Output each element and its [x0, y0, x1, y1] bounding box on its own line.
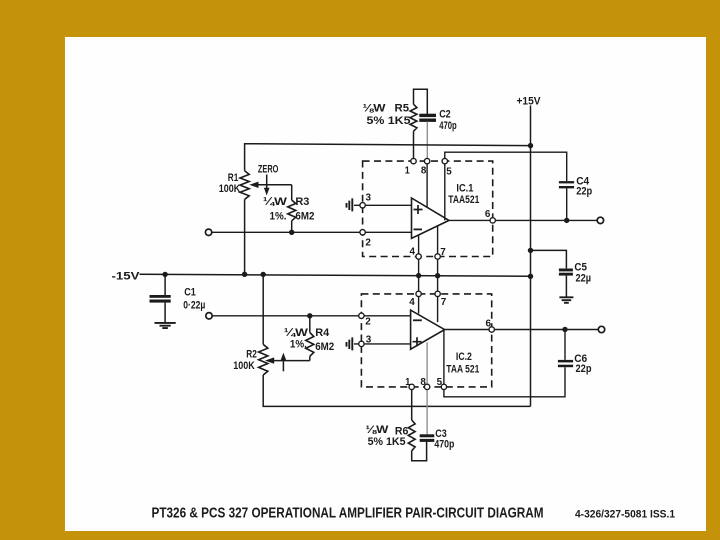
svg-text:⅛W: ⅛W [365, 424, 389, 436]
capacitor C4 22p [559, 181, 574, 183]
junction C5 branch / +15V rail [528, 248, 533, 253]
svg-text:¼W: ¼W [284, 327, 309, 339]
potentiometer R1 100K [240, 171, 249, 200]
svg-text:3: 3 [366, 335, 372, 346]
wire U2 pin 1 lead to R6 [411, 387, 413, 420]
R2 adjust up-arrow [282, 358, 284, 371]
input terminal 1 [205, 229, 211, 235]
svg-text:IC.1: IC.1 [456, 182, 473, 194]
svg-text:470p: 470p [434, 439, 454, 451]
svg-text:TAA521: TAA521 [448, 194, 479, 206]
U2 minus input symbol [413, 319, 422, 321]
wire C5 branch from +15V rail [531, 250, 567, 268]
svg-text:TAA 521: TAA 521 [446, 363, 479, 375]
wire -15V bus [140, 274, 531, 276]
svg-text:6: 6 [485, 209, 491, 220]
svg-text:100K: 100K [219, 183, 241, 195]
svg-text:1%.: 1%. [270, 210, 287, 222]
svg-text:C1: C1 [184, 287, 196, 299]
svg-text:5% 1K5: 5% 1K5 [368, 436, 406, 448]
junction pin7 column / bus [435, 273, 440, 278]
resistor R3 6M2 [291, 185, 293, 200]
svg-text:7: 7 [441, 297, 447, 308]
wire C2 bottom lead to pin 8 (faint) [426, 122, 428, 162]
svg-text:6M2: 6M2 [295, 210, 314, 222]
wire top bus from R1 top to +15V rail [245, 144, 531, 171]
wire U1 pin5 / C4 compensation loop [445, 152, 567, 220]
svg-text:22p: 22p [576, 363, 592, 375]
wire U1 output line to terminal [449, 219, 597, 221]
svg-text:0·22µ: 0·22µ [183, 299, 205, 311]
svg-text:5: 5 [437, 377, 443, 388]
junction R4 / input 2 line [307, 313, 312, 318]
junction R3 / input line [289, 230, 294, 235]
ground below C1 [155, 323, 176, 328]
wire U1 pin 3 to + input [354, 204, 412, 206]
svg-text:IC.2: IC.2 [456, 351, 472, 363]
svg-text:8: 8 [421, 166, 427, 177]
input terminal 2 [206, 313, 212, 319]
svg-text:⅛W: ⅛W [363, 103, 387, 115]
wire U2 pin 8 internal stub (faint) [426, 342, 428, 387]
wire U2 output line to terminal [445, 329, 599, 331]
R1 wiper arrow [256, 184, 292, 186]
svg-text:5: 5 [446, 166, 452, 177]
capacitor C2 470p [419, 114, 436, 117]
output terminal 1 [597, 217, 603, 223]
junction bus / +15V rail [528, 274, 533, 279]
svg-text:1%.: 1%. [290, 338, 307, 350]
svg-text:+15V: +15V [517, 95, 542, 107]
svg-text:470p: 470p [439, 120, 457, 132]
junction R2 / bus [261, 272, 266, 277]
R2 wiper arrow [272, 360, 310, 362]
svg-text:1: 1 [405, 377, 410, 388]
ground-capacitor symbol at U2 pin 3 [347, 337, 353, 350]
IC2 dashed package box [361, 294, 491, 387]
capacitor C6 22p [564, 330, 566, 360]
svg-text:8: 8 [420, 377, 426, 388]
junction C1 / bus [162, 272, 167, 277]
svg-text:4-326/327-5081 ISS.1: 4-326/327-5081 ISS.1 [575, 508, 675, 520]
wire pin4 column IC1-IC2 [418, 235, 420, 314]
svg-text:R4: R4 [315, 327, 330, 339]
ground below C5 [559, 297, 573, 303]
wire top loop joining R5 and C2 tops [414, 89, 428, 114]
svg-text:5% 1K5: 5% 1K5 [367, 115, 411, 127]
op-amp U1 triangle [412, 198, 450, 238]
svg-text:22µ: 22µ [576, 272, 592, 284]
svg-text:R2: R2 [246, 348, 256, 360]
capacitor C5 22u [559, 269, 573, 272]
U1 minus input symbol [414, 228, 423, 230]
wire R5 bottom lead to pin 1 [413, 131, 415, 161]
wire input 2 line to op-amp 2 inverting input [212, 315, 410, 317]
capacitor C3 470p (lead faint) [426, 387, 428, 435]
junction C6 / output line [562, 327, 567, 332]
wire U2 pin 3 to + input [354, 343, 411, 345]
U1 plus input symbol [414, 205, 423, 214]
svg-text:4: 4 [410, 247, 416, 258]
svg-text:4: 4 [409, 297, 415, 308]
wire R2 bottom lead + feedback line B to +15V rail bottom [263, 375, 530, 406]
svg-text:2: 2 [365, 238, 371, 249]
svg-text:R5: R5 [395, 103, 410, 115]
pin circles IC1 [411, 158, 416, 163]
svg-text:R1: R1 [228, 172, 239, 184]
U2 plus input symbol [413, 337, 422, 346]
wire input 1 line to op-amp inverting input [212, 231, 412, 233]
svg-text:R3: R3 [295, 196, 309, 208]
svg-text:C2: C2 [439, 108, 451, 120]
op-amp U2 triangle [411, 310, 445, 349]
wire U2 pin5 / C6 compensation loop [444, 330, 565, 397]
wire R1 bottom lead to -15V bus [244, 199, 246, 274]
svg-text:6M2: 6M2 [315, 341, 334, 353]
svg-text:-15V: -15V [112, 270, 141, 282]
svg-text:3: 3 [366, 193, 372, 204]
junction R1 / bus [242, 272, 247, 277]
svg-text:6: 6 [486, 319, 492, 330]
wire bottom loop joining R6 and C3 [412, 442, 427, 461]
resistor R4 6M2 [309, 316, 311, 333]
svg-text:¼W: ¼W [263, 196, 288, 208]
svg-text:PT326 & PCS 327 OPERATIONAL AM: PT326 & PCS 327 OPERATIONAL AMPLIFIER PA… [152, 505, 544, 522]
resistor R5 1K5 [410, 104, 417, 131]
resistor R6 1K5 [408, 420, 415, 451]
junction pin4 column / bus [416, 273, 421, 278]
junction C4 / output line [564, 218, 569, 223]
wire pin7 column IC1-IC2 [437, 226, 439, 322]
svg-text:2: 2 [365, 316, 371, 327]
wire +15V rail vertical [530, 106, 532, 407]
svg-text:1: 1 [405, 165, 410, 176]
potentiometer R2 100K [262, 274, 264, 344]
ground-capacitor symbol at U1 pin 3 [347, 198, 353, 211]
junction top bus / +15V [528, 143, 533, 148]
output terminal 2 [598, 326, 604, 332]
capacitor C1 0.22u [164, 274, 166, 295]
svg-text:22p: 22p [576, 185, 592, 197]
IC1 dashed package box [363, 161, 493, 256]
svg-text:7: 7 [440, 247, 446, 258]
svg-text:100K: 100K [233, 360, 255, 372]
wire U1 pin 8 internal stub [426, 161, 428, 207]
svg-text:ZERO: ZERO [258, 163, 279, 175]
pin circles IC2 [416, 291, 421, 296]
